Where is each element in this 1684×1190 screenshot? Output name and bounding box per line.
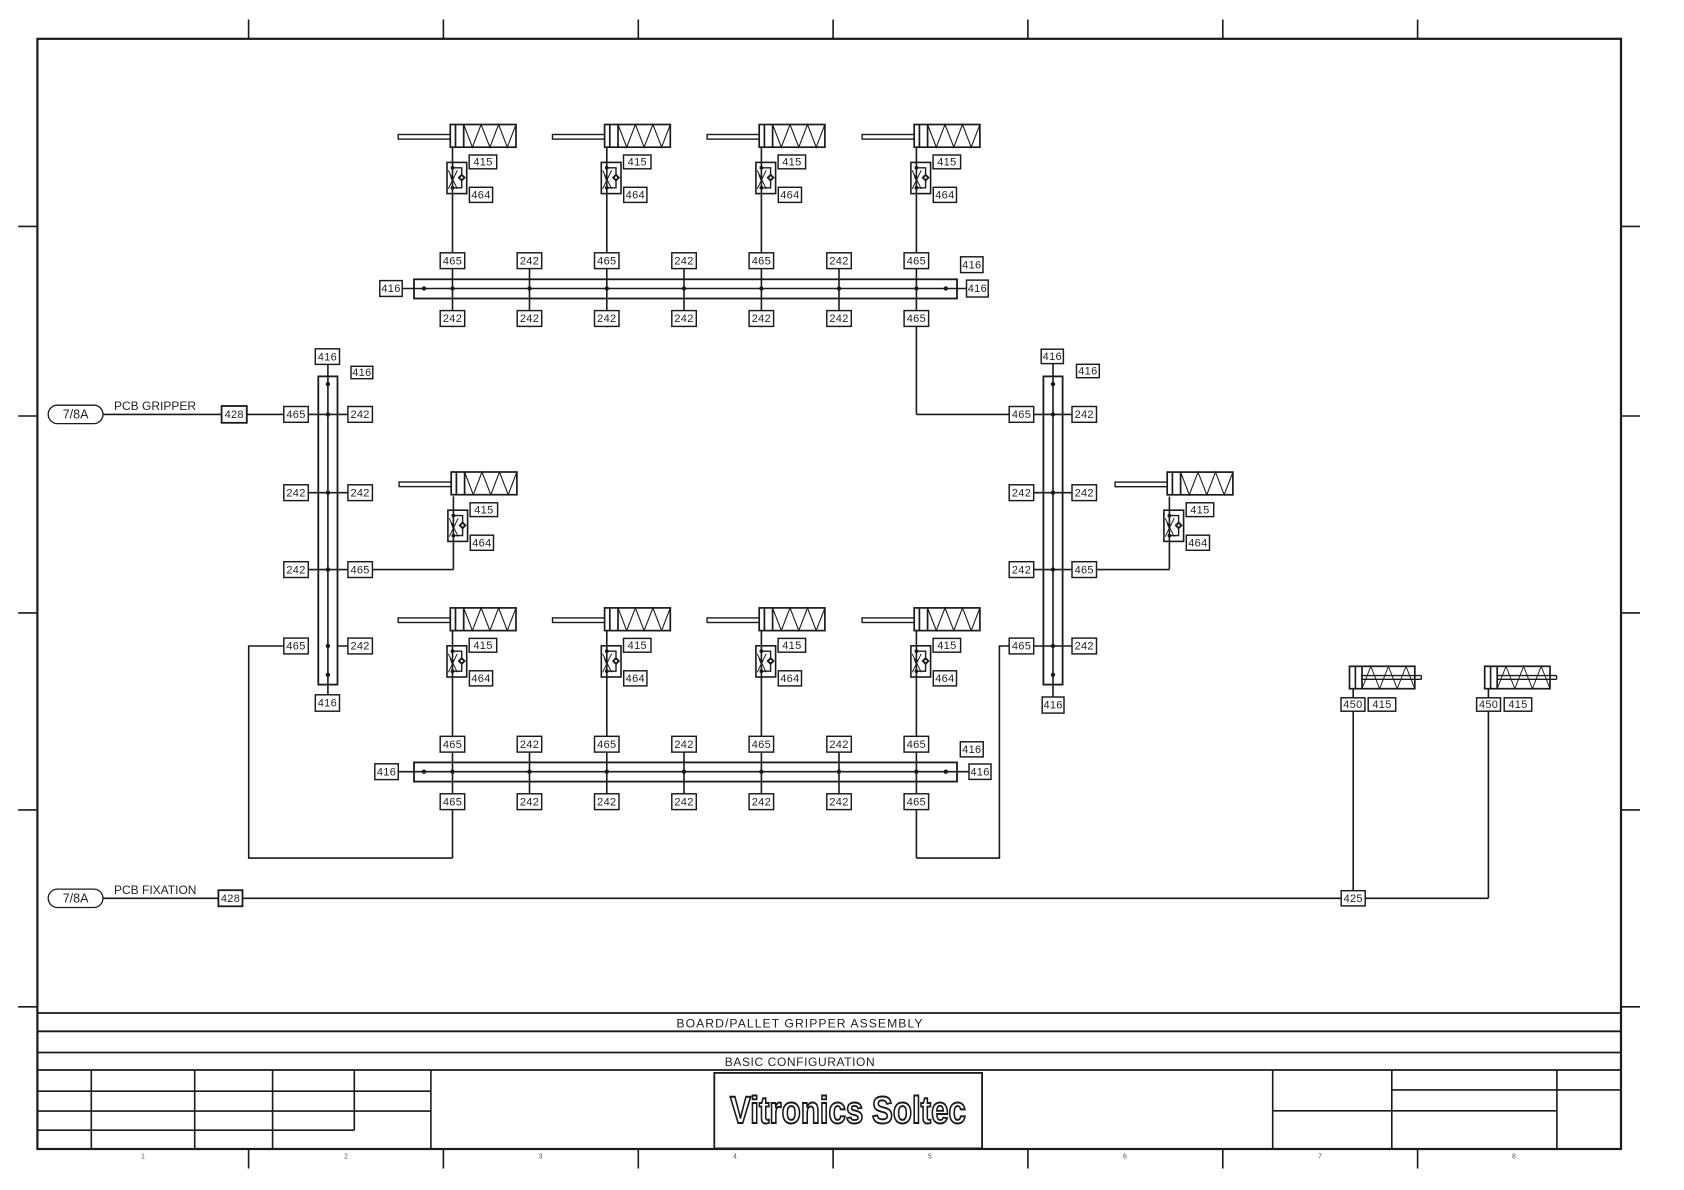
label box 464 (top row 3) <box>778 187 801 202</box>
wire left manifold center line <box>327 364 329 695</box>
svg-text:242: 242 <box>1075 641 1094 653</box>
svg-text:242: 242 <box>520 313 539 325</box>
svg-text:465: 465 <box>752 739 771 751</box>
label box 242 (top bar below, x=839.0) <box>827 311 852 327</box>
svg-text:465: 465 <box>907 313 926 325</box>
svg-text:464: 464 <box>471 673 490 685</box>
label box 416 (bottom bar left end) <box>375 764 399 780</box>
svg-text:415: 415 <box>937 640 956 652</box>
svg-text:416: 416 <box>318 351 337 363</box>
svg-text:416: 416 <box>1043 351 1062 363</box>
junction dots left manifold <box>326 382 330 677</box>
wire bottom bar center line <box>398 771 970 773</box>
svg-text:242: 242 <box>1075 487 1094 499</box>
label box 465 (bottom bar above, x=452.5) <box>440 736 465 752</box>
label box 465 (right manifold left, y=414.4) <box>1009 407 1033 423</box>
logo cell Vitronics Soltec <box>714 1073 982 1149</box>
title block right cells <box>1273 1070 1621 1149</box>
label box 242 (bottom bar below, x=839.0) <box>827 794 852 810</box>
svg-text:415: 415 <box>782 640 801 652</box>
cylinder 415 (top row 3) <box>707 125 825 148</box>
label box 242 (right manifold left, y=569.6) <box>1009 562 1033 578</box>
label box 242 (left manifold right, y=646.0) <box>348 638 373 654</box>
label box 415 (fixation B) <box>1504 698 1532 711</box>
svg-text:416: 416 <box>962 259 981 271</box>
svg-text:465: 465 <box>1012 409 1031 421</box>
junction dots top bar <box>422 286 948 290</box>
flow control valve 464 (bottom row 2) <box>601 646 621 677</box>
label box 415 (top row 4) <box>933 155 961 169</box>
label box 464 (top row 1) <box>469 187 492 202</box>
svg-text:PCB FIXATION: PCB FIXATION <box>114 883 196 897</box>
cylinder 415 (bottom row 3) <box>707 608 825 631</box>
label box 465 (top bar above, x=452.5) <box>440 253 465 269</box>
svg-text:465: 465 <box>907 255 926 267</box>
svg-text:242: 242 <box>350 409 369 421</box>
source oval 7/8A (PCB FIXATION) <box>48 889 103 907</box>
label box 465 (top bar above, x=606.8) <box>595 253 620 269</box>
svg-text:1: 1 <box>141 1154 145 1161</box>
label box 465 (right manifold right, y=569.6) <box>1072 562 1097 578</box>
svg-text:5: 5 <box>928 1154 932 1161</box>
svg-text:464: 464 <box>1188 537 1207 549</box>
label box 416 (bottom bar floating) <box>960 742 983 757</box>
distribution manifold 416 (right) <box>1043 376 1062 684</box>
svg-text:464: 464 <box>935 673 954 685</box>
cylinder 415 (top row 2) <box>553 125 671 148</box>
label box 242 (right manifold right, y=492.7) <box>1072 485 1097 501</box>
flow control valve 464 (bottom row 1) <box>447 646 467 677</box>
wire bottom cylinder 3 to bottom bar <box>760 631 762 810</box>
label box 242 (right manifold right, y=646.0) <box>1072 638 1097 654</box>
svg-text:465: 465 <box>907 739 926 751</box>
svg-text:242: 242 <box>674 255 693 267</box>
label box 465 (top bar above, x=916.4) <box>904 253 929 269</box>
label box 465 (left manifold left, y=414.4) <box>284 407 309 423</box>
label box 242 (right manifold right, y=414.4) <box>1072 407 1097 423</box>
svg-text:465: 465 <box>443 255 462 267</box>
svg-text:242: 242 <box>286 487 305 499</box>
wire top bar stub port 839.0 <box>838 256 840 327</box>
wire right manifold center line <box>1052 364 1054 697</box>
label box 242 (top bar below, x=606.8) <box>595 311 620 327</box>
label box 464 (bottom row 3) <box>778 671 801 686</box>
svg-text:416: 416 <box>970 766 989 778</box>
wire bottom bar stub port 684.0 <box>683 739 685 810</box>
cylinder 415 (middle right) <box>1115 472 1233 495</box>
label box 416 (right manifold bottom) <box>1042 697 1064 713</box>
label box 415 (bottom row 3) <box>778 638 806 652</box>
wire top bar stub port 684.0 <box>683 256 685 327</box>
label box 464 (top row 4) <box>933 187 956 202</box>
label box 416 (top bar left end) <box>380 281 402 297</box>
label box 465 (bottom bar above, x=916.4) <box>904 736 929 752</box>
label box 242 (top bar below, x=452.5) <box>440 311 465 327</box>
wire top cylinder 1 to top bar <box>452 147 454 327</box>
svg-text:BASIC CONFIGURATION: BASIC CONFIGURATION <box>725 1055 876 1069</box>
junction dots right manifold <box>1051 382 1055 677</box>
flow control valve 464 (top row 4) <box>911 162 931 193</box>
wire bottom bar stub port 839.0 <box>838 739 840 810</box>
label box 415 (top row 2) <box>624 155 652 169</box>
label box 464 (middle right) <box>1186 535 1209 550</box>
cylinder 415 (bottom row 2) <box>553 608 671 631</box>
wire top cylinder 2 to top bar <box>606 147 608 327</box>
svg-text:242: 242 <box>350 487 369 499</box>
wire bottom bar stub port 529.5 <box>529 739 531 810</box>
svg-text:416: 416 <box>1078 366 1097 378</box>
svg-text:242: 242 <box>520 255 539 267</box>
revision table <box>37 1070 431 1149</box>
label box 242 (left manifold left, y=492.7) <box>284 485 309 501</box>
label box 242 (top bar above, x=839.0) <box>827 253 852 269</box>
label box 464 (bottom row 4) <box>933 671 956 686</box>
flow control valve 464 (bottom row 4) <box>911 646 931 677</box>
svg-text:Vitronics Soltec: Vitronics Soltec <box>730 1089 966 1132</box>
wire right loop (bottom bar to manifold) <box>916 646 1009 858</box>
zone digits <box>141 1154 1516 1161</box>
source oval 7/8A (PCB GRIPPER) <box>48 405 103 423</box>
label box 242 (bottom bar below, x=761.4) <box>749 794 774 810</box>
cylinder 415 (middle left) <box>399 472 517 495</box>
label box 416 (left manifold bottom) <box>315 695 339 711</box>
wire top bar stub port 529.5 <box>529 256 531 327</box>
svg-text:8: 8 <box>1512 1154 1516 1161</box>
svg-text:4: 4 <box>733 1154 737 1161</box>
wire PCB GRIPPER supply line <box>103 413 372 415</box>
svg-text:242: 242 <box>350 641 369 653</box>
svg-text:416: 416 <box>381 283 400 295</box>
label box 465 (left manifold right, y=569.6) <box>348 562 373 578</box>
wire fixation cylinder B drop <box>1487 689 1489 899</box>
svg-text:465: 465 <box>1075 564 1094 576</box>
svg-text:464: 464 <box>626 190 645 202</box>
svg-text:242: 242 <box>1075 409 1094 421</box>
label box 465 (bottom bar below, x=452.5) <box>440 794 465 810</box>
svg-text:242: 242 <box>443 313 462 325</box>
wire top bar center line <box>402 288 966 290</box>
wire right manifold port 569.6 to middle cylinder <box>1010 569 1170 571</box>
label box 242 (bottom bar above, x=529.5) <box>517 736 542 752</box>
label box 464 (bottom row 1) <box>469 671 492 686</box>
label box 242 (bottom bar below, x=529.5) <box>517 794 542 810</box>
wire left manifold port 492.7 <box>284 492 372 494</box>
label box 242 (top bar above, x=684.0) <box>672 253 697 269</box>
label box 465 (top bar below, x=916.4) <box>904 311 929 327</box>
svg-text:242: 242 <box>1012 564 1031 576</box>
flow control valve 464 (bottom row 3) <box>756 646 776 677</box>
label box 242 (top bar below, x=684.0) <box>672 311 697 327</box>
svg-text:242: 242 <box>752 796 771 808</box>
cylinder 415/450 (fixation B) <box>1485 666 1557 688</box>
flow control valve 464 (middle right) <box>1164 510 1184 541</box>
flow control valve 464 (top row 1) <box>447 162 467 193</box>
wire bottom cylinder 4 to bottom bar and right loop <box>915 631 917 859</box>
label box 242 (bottom bar above, x=684.0) <box>672 736 697 752</box>
svg-text:6: 6 <box>1123 1154 1127 1161</box>
title block lines <box>37 1013 1621 1070</box>
svg-text:416: 416 <box>318 698 337 710</box>
svg-text:242: 242 <box>520 739 539 751</box>
svg-text:242: 242 <box>829 796 848 808</box>
svg-text:428: 428 <box>221 893 240 905</box>
svg-text:415: 415 <box>628 640 647 652</box>
label box 416 (left manifold floating) <box>351 366 373 379</box>
svg-text:450: 450 <box>1343 699 1362 711</box>
wire top cylinder 4 to top bar and right manifold <box>915 147 917 414</box>
wire left manifold port 569.6 to middle cylinder <box>284 569 453 571</box>
svg-text:465: 465 <box>1012 641 1031 653</box>
label box 416 (bottom bar right end) <box>969 764 991 779</box>
label box 465 (bottom bar above, x=606.8) <box>595 736 620 752</box>
junction dots bottom bar <box>422 770 948 774</box>
svg-text:242: 242 <box>674 796 693 808</box>
svg-text:242: 242 <box>597 796 616 808</box>
svg-text:464: 464 <box>471 190 490 202</box>
svg-text:428: 428 <box>225 409 244 421</box>
label box 415 (middle right) <box>1186 503 1214 517</box>
label box 450 (fixation A) <box>1341 698 1365 711</box>
svg-text:464: 464 <box>935 190 954 202</box>
label box 450 (fixation B) <box>1477 698 1501 711</box>
flow control valve 464 (top row 3) <box>756 162 776 193</box>
svg-text:416: 416 <box>968 283 987 295</box>
cylinder 415 (bottom row 4) <box>862 608 980 631</box>
svg-text:415: 415 <box>474 504 493 516</box>
svg-text:242: 242 <box>829 739 848 751</box>
svg-text:464: 464 <box>780 673 799 685</box>
label box 415 (fixation A) <box>1368 698 1396 711</box>
label box 425 (fixation line) <box>1341 891 1365 906</box>
flow control valve 464 (top row 2) <box>601 162 621 193</box>
svg-text:415: 415 <box>782 157 801 169</box>
label box 242 (left manifold right, y=414.4) <box>348 407 373 423</box>
wire bottom cylinder 1 to bottom bar and left loop <box>452 631 454 859</box>
svg-text:415: 415 <box>628 157 647 169</box>
wire middle-left cylinder drop <box>452 496 454 569</box>
svg-text:416: 416 <box>1043 700 1062 712</box>
svg-text:416: 416 <box>377 766 396 778</box>
svg-text:7: 7 <box>1318 1154 1322 1161</box>
label box 428 (PCB GRIPPER) <box>222 406 247 423</box>
distribution manifold 416 (left) <box>318 376 337 684</box>
svg-text:416: 416 <box>962 744 981 756</box>
wire top cylinder 3 to top bar <box>760 147 762 327</box>
label box 242 (top bar below, x=761.4) <box>749 311 774 327</box>
svg-text:465: 465 <box>443 796 462 808</box>
label box 415 (bottom row 4) <box>933 638 961 652</box>
wire right manifold port 414.4 <box>1010 413 1097 415</box>
label box 428 (PCB FIXATION) <box>218 890 242 906</box>
flow control valve 464 (middle left) <box>448 510 468 541</box>
label box 465 (bottom bar above, x=761.4) <box>749 736 774 752</box>
svg-text:242: 242 <box>674 313 693 325</box>
cylinder 415 (top row 4) <box>862 125 980 148</box>
svg-text:464: 464 <box>780 190 799 202</box>
label box 415 (top row 3) <box>778 155 806 169</box>
wire left manifold port 646 right stub <box>338 645 373 647</box>
svg-text:242: 242 <box>597 313 616 325</box>
wire right manifold port 646 <box>1010 645 1097 647</box>
wire bottom cylinder 2 to bottom bar <box>606 631 608 810</box>
svg-text:450: 450 <box>1479 699 1498 711</box>
svg-text:PCB GRIPPER: PCB GRIPPER <box>114 399 196 413</box>
label box 465 (left manifold left, y=646.0) <box>284 638 309 654</box>
svg-text:242: 242 <box>286 564 305 576</box>
label box 242 (top bar below, x=529.5) <box>517 311 542 327</box>
svg-text:3: 3 <box>539 1154 543 1161</box>
svg-text:242: 242 <box>829 255 848 267</box>
label box 242 (bottom bar below, x=606.8) <box>595 794 620 810</box>
wire middle-right cylinder drop <box>1168 497 1170 570</box>
svg-text:464: 464 <box>626 673 645 685</box>
label box 416 (right manifold floating) <box>1077 364 1100 377</box>
label box 464 (top row 2) <box>624 187 647 202</box>
label box 242 (top bar above, x=529.5) <box>517 253 542 269</box>
svg-text:7/8A: 7/8A <box>63 892 89 906</box>
label box 242 (bottom bar below, x=684.0) <box>672 794 697 810</box>
svg-text:416: 416 <box>352 367 371 379</box>
wire PCB FIXATION supply line <box>103 897 1488 899</box>
label box 416 (top bar right end) <box>967 280 989 297</box>
svg-text:242: 242 <box>520 796 539 808</box>
svg-text:465: 465 <box>597 255 616 267</box>
label box 242 (bottom bar above, x=839.0) <box>827 736 852 752</box>
label box 415 (middle left) <box>470 503 498 517</box>
label box 464 (middle left) <box>470 535 493 550</box>
svg-text:242: 242 <box>829 313 848 325</box>
svg-text:2: 2 <box>344 1154 348 1161</box>
wire fixation cylinder A drop <box>1352 689 1354 899</box>
label box 465 (top bar above, x=761.4) <box>749 253 774 269</box>
manifold bar 416 (bottom) <box>414 762 957 781</box>
svg-text:415: 415 <box>937 157 956 169</box>
svg-text:465: 465 <box>597 739 616 751</box>
svg-text:415: 415 <box>1372 699 1391 711</box>
label box 415 (bottom row 2) <box>624 638 652 652</box>
label box 464 (bottom row 2) <box>624 671 647 686</box>
label box 242 (right manifold left, y=492.7) <box>1009 485 1033 501</box>
label box 415 (bottom row 1) <box>469 638 497 652</box>
svg-text:7/8A: 7/8A <box>63 408 89 422</box>
svg-text:415: 415 <box>473 640 492 652</box>
cylinder 415 (bottom row 1) <box>398 608 516 631</box>
svg-text:464: 464 <box>472 537 491 549</box>
svg-text:242: 242 <box>674 739 693 751</box>
label box 465 (bottom bar below, x=916.4) <box>904 794 929 810</box>
svg-text:465: 465 <box>752 255 771 267</box>
svg-text:465: 465 <box>286 409 305 421</box>
svg-text:242: 242 <box>1012 487 1031 499</box>
cylinder 415 (top row 1) <box>398 125 516 148</box>
cylinder 415/450 (fixation A) <box>1350 666 1422 688</box>
wire left loop (manifold to bottom bar) <box>249 646 453 858</box>
label box 242 (left manifold right, y=492.7) <box>348 485 373 501</box>
svg-text:BOARD/PALLET GRIPPER ASSEMBLY: BOARD/PALLET GRIPPER ASSEMBLY <box>676 1017 923 1031</box>
label box 416 (left manifold top) <box>315 349 339 365</box>
manifold bar 416 (top) <box>414 279 957 298</box>
label box 465 (right manifold left, y=646.0) <box>1009 638 1033 654</box>
label box 416 (right manifold top) <box>1041 349 1063 363</box>
svg-text:425: 425 <box>1344 893 1363 905</box>
svg-text:242: 242 <box>752 313 771 325</box>
svg-text:465: 465 <box>907 796 926 808</box>
label box 415 (top row 1) <box>469 155 497 169</box>
wire right manifold port 492.7 <box>1010 492 1097 494</box>
svg-text:415: 415 <box>473 157 492 169</box>
label box 242 (left manifold left, y=569.6) <box>284 562 309 578</box>
svg-text:415: 415 <box>1190 504 1209 516</box>
svg-text:415: 415 <box>1508 699 1527 711</box>
svg-text:465: 465 <box>350 564 369 576</box>
label box 416 (top bar floating) <box>961 257 983 273</box>
svg-text:465: 465 <box>443 739 462 751</box>
svg-text:465: 465 <box>286 641 305 653</box>
